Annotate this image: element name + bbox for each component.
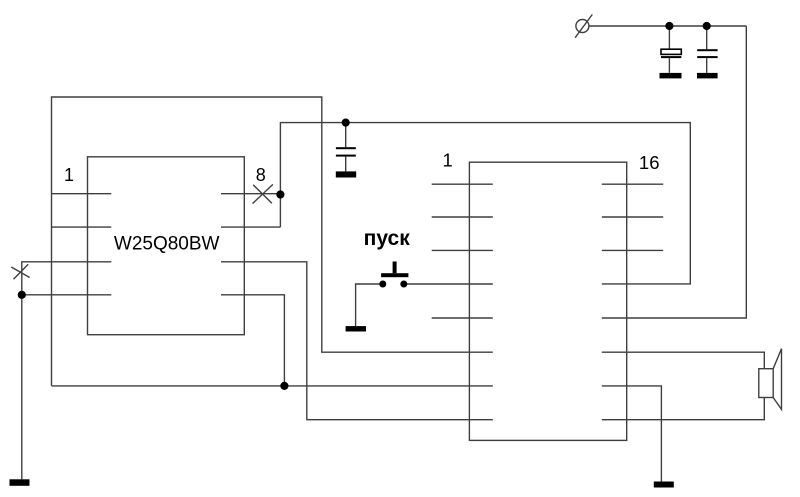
pin 2 stub U1 (52, 226, 112, 228)
capacitor C3 plate top (336, 147, 356, 149)
IC U1 body (88, 157, 245, 335)
capacitor C1 plate top box (661, 49, 681, 54)
svg-text:W25Q80BW: W25Q80BW (114, 233, 220, 254)
U2 left wire row4 button (404, 283, 493, 285)
ground bar left (10, 479, 30, 486)
U2 left stub row5 (432, 317, 493, 319)
button SB1 actuator bar (381, 273, 408, 277)
ground bar U2 (654, 482, 674, 488)
no-connect X pin8 (253, 184, 273, 203)
U2 left stub row1 (432, 183, 493, 185)
U2 right stub row1 (602, 183, 663, 185)
capacitor C3 leads (345, 123, 347, 172)
pin 6 wire U1 (221, 262, 493, 420)
node dot vcc2 (703, 22, 711, 30)
U2 left stub row3 (432, 249, 493, 251)
capacitor C1 plate bottom (661, 56, 681, 58)
node dot left (18, 291, 26, 299)
wire vcc mid horizontal (280, 123, 690, 284)
svg-text:16: 16 (639, 152, 660, 173)
pin 7 stub U1 (221, 226, 280, 228)
wire bottom long (52, 385, 493, 387)
IC U2 body (469, 162, 626, 440)
node dot vcc1 (665, 22, 673, 30)
svg-text:8: 8 (256, 165, 266, 185)
button SB1 left wire (356, 284, 383, 326)
node dot C3 tap (342, 119, 350, 127)
wire power entry (589, 25, 746, 27)
pin 5 wire U1 (221, 295, 284, 386)
U2 right stub row3 (602, 249, 663, 251)
capacitor C2 plate bottom (697, 56, 717, 58)
pin 4 wire U1 (22, 294, 112, 296)
ground bar button (346, 326, 366, 331)
U2 left stub row2 (432, 216, 493, 218)
pin 3 wire U1 (22, 262, 112, 480)
pin 8 stub U1 (221, 193, 280, 195)
node dot bottom (280, 382, 288, 390)
speaker BA1 cone (773, 349, 781, 410)
capacitor C2 plate top (697, 49, 717, 51)
U2 right wire row5 vcc (602, 26, 747, 318)
pin 1 stub U1 (52, 193, 112, 195)
U2 right wire row6 speaker top (602, 352, 765, 369)
no-connect X pin3 (11, 264, 29, 279)
button SB1 contact left (379, 281, 386, 288)
node dot pin8 (276, 190, 284, 198)
svg-text:1: 1 (442, 149, 452, 170)
button SB1 actuator stem (393, 262, 397, 274)
capacitor C1 leads (668, 26, 670, 73)
svg-text:1: 1 (64, 165, 74, 185)
U2 right wire row7 gnd (602, 386, 662, 482)
U2 right stub row2 (602, 216, 663, 218)
svg-text:пуск: пуск (364, 227, 411, 250)
ground bar C3 (336, 171, 356, 177)
speaker BA1 frame (759, 369, 773, 398)
ground bar C1 (660, 73, 682, 79)
capacitor C3 plate bottom (336, 155, 356, 157)
U2 right wire row8 speaker bottom (602, 398, 765, 420)
capacitor C2 leads (706, 26, 708, 73)
wire top loop left (52, 97, 493, 386)
ground bar C2 (697, 73, 718, 79)
button SB1 contact right (400, 281, 407, 288)
connector X1 slash (575, 15, 592, 38)
connector X1 circle (576, 20, 589, 33)
